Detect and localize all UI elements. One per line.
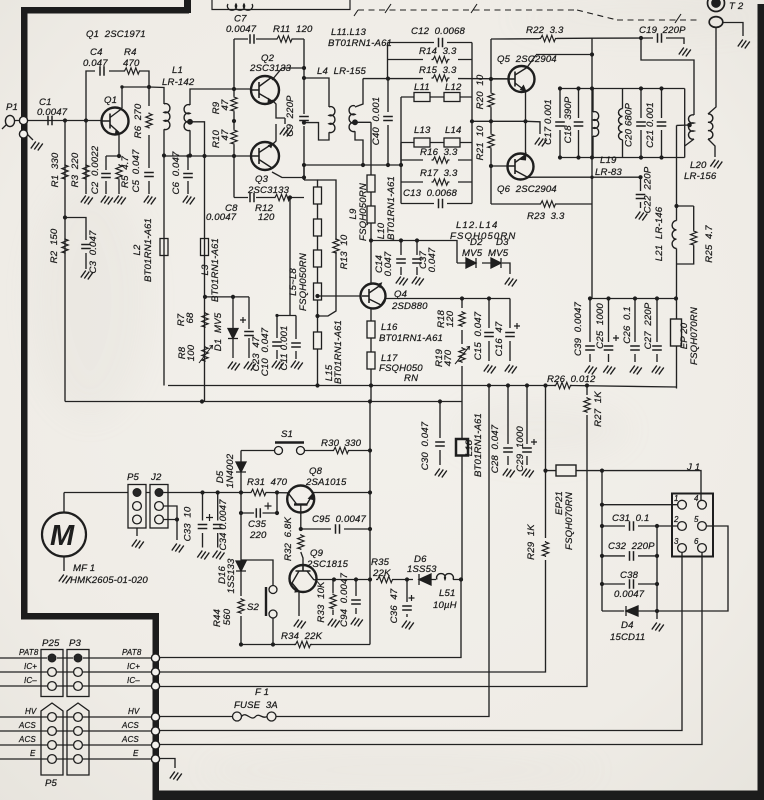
resistor R10 <box>231 129 237 145</box>
wire: C35 row <box>241 493 277 514</box>
svg-text:J 1: J 1 <box>686 462 700 473</box>
wire: C21 leg <box>661 89 663 158</box>
svg-text:BT01RN1-A61: BT01RN1-A61 <box>143 218 154 282</box>
svg-text:120: 120 <box>258 212 275 223</box>
ground E row <box>170 772 182 781</box>
capacitor C14 <box>396 259 406 263</box>
wire: C14/C37 row to D2 leg <box>371 241 457 264</box>
wire: bus165 mid supply row <box>304 164 402 166</box>
svg-text:ACS: ACS <box>18 721 36 730</box>
svg-text:L12.L14: L12.L14 <box>456 220 498 231</box>
connector J2 <box>150 485 168 529</box>
svg-text:C15 0.047: C15 0.047 <box>473 311 484 360</box>
svg-text:C20 680P: C20 680P <box>624 103 635 147</box>
ground C26 <box>630 366 642 375</box>
thick border: lower-left step <box>21 613 159 620</box>
svg-text:L16: L16 <box>381 322 398 333</box>
svg-text:IC+: IC+ <box>127 662 140 671</box>
capacitor C17 <box>555 122 565 126</box>
wire: C20 leg <box>640 89 642 158</box>
ferrite bead L11 <box>414 93 430 102</box>
svg-text:C29 1000: C29 1000 <box>515 426 526 472</box>
resistor R30 <box>332 447 350 453</box>
wire: L1 secondary mid tap to R9/R10 node <box>190 122 205 156</box>
inductor L19 secondary <box>619 109 623 140</box>
wire: T2 lead down <box>708 28 716 115</box>
wire: R30 rail x370 <box>370 386 371 645</box>
svg-text:1SS133: 1SS133 <box>226 558 237 594</box>
resistor R35 <box>376 576 394 582</box>
ground C15 <box>484 365 496 374</box>
svg-text:C36 47: C36 47 <box>389 588 400 623</box>
svg-text:T 2: T 2 <box>729 1 744 12</box>
svg-text:R17 3.3: R17 3.3 <box>420 168 458 179</box>
wire: C30 branch <box>439 402 441 466</box>
wire: C13 row <box>401 203 472 205</box>
capacitor C36 electrolytic <box>402 595 414 610</box>
capacitor C25 electrolytic <box>604 335 619 350</box>
diode D2 <box>466 258 476 268</box>
wire: Q8 emitter row <box>314 492 371 494</box>
svg-text:P5: P5 <box>45 778 58 789</box>
node L4 tap <box>353 120 358 125</box>
wire: C18 leg <box>578 89 580 158</box>
resistor R12 <box>274 194 292 200</box>
node L1 tap <box>188 120 193 125</box>
resistor R21 <box>488 133 494 149</box>
inductor L19 primary <box>593 112 599 137</box>
wire: L1 secondary bottom to Q3 base row <box>164 130 251 156</box>
wire: C22 branch <box>640 177 642 208</box>
svg-text:BT01RN1-A61: BT01RN1-A61 <box>333 320 344 384</box>
svg-text:E: E <box>133 749 139 758</box>
wire: L1 primary bottom to L2 to bus1 <box>163 129 165 385</box>
wire: T2 ground stub <box>723 23 743 37</box>
svg-text:3: 3 <box>674 537 679 546</box>
svg-text:E: E <box>30 749 36 758</box>
svg-text:5: 5 <box>694 515 699 524</box>
ground R33 <box>328 619 340 628</box>
svg-text:L51: L51 <box>439 588 455 599</box>
svg-text:L1: L1 <box>172 65 183 76</box>
svg-text:Q1 2SC1971: Q1 2SC1971 <box>86 29 146 40</box>
svg-text:Q9: Q9 <box>310 548 324 559</box>
wire: IC- left rows <box>0 685 152 687</box>
connector P5 top <box>128 485 146 529</box>
wire: R22 top row <box>491 37 592 40</box>
wire: Q6 base lead <box>491 165 508 167</box>
connector J1 <box>672 494 713 557</box>
svg-text:10µH: 10µH <box>433 600 457 611</box>
wire: C28 leg to bus1 <box>507 386 509 466</box>
wire: C7/R11 feedback row Q2 <box>234 38 304 40</box>
wire: C4/R4 feedback loop <box>86 71 149 121</box>
wire: Q8 collector to R32 <box>301 505 303 566</box>
switch S2 <box>266 586 277 619</box>
ground R5 <box>114 196 126 205</box>
svg-text:R13 10: R13 10 <box>339 234 350 269</box>
diode D6 <box>419 574 431 585</box>
svg-text:HMK2605-01-020: HMK2605-01-020 <box>70 575 148 586</box>
ground motor <box>59 575 71 584</box>
svg-text:2: 2 <box>673 515 679 524</box>
svg-text:LR-83: LR-83 <box>595 167 622 178</box>
resistor R29 <box>542 541 548 557</box>
wire: C14 branch <box>400 241 402 276</box>
svg-text:LR-156: LR-156 <box>684 171 717 182</box>
wire: tank top row y88.5 <box>560 88 685 90</box>
wire: L19 primary leads <box>592 89 594 158</box>
wire: S2 leads <box>241 560 273 645</box>
wire: L4 secondary tap lead <box>355 79 371 166</box>
wire: C8/R12 feedback row Q3 <box>234 156 304 198</box>
ferrite bead L15 <box>314 332 322 349</box>
svg-text:FUSE 3A: FUSE 3A <box>234 700 278 711</box>
svg-text:R6 270: R6 270 <box>133 103 144 138</box>
svg-text:C26 0.1: C26 0.1 <box>622 306 633 343</box>
svg-text:J2: J2 <box>150 472 162 483</box>
svg-text:D4: D4 <box>621 620 634 631</box>
svg-text:C34 0.0047: C34 0.0047 <box>218 499 229 551</box>
wire: bank right rail x472 <box>471 43 473 204</box>
wire: R34 row <box>241 644 370 646</box>
wire: C31 row to pin2 <box>602 525 678 527</box>
svg-text:BT01RN1-A61: BT01RN1-A61 <box>386 176 397 240</box>
ground L20 <box>710 160 722 169</box>
capacitor C4 <box>100 66 104 76</box>
svg-text:2SC3133: 2SC3133 <box>249 63 292 74</box>
wire: bank2 left rail <box>400 143 402 204</box>
wire: C17 leg <box>559 89 561 158</box>
wire: C33 branch <box>202 493 204 548</box>
wire: Q4 emitter row to C15/C16 <box>385 298 510 300</box>
ground C22 <box>635 212 647 221</box>
shield line hooks <box>354 4 681 23</box>
svg-text:ACS: ACS <box>121 721 139 730</box>
ground C6 <box>183 196 195 205</box>
wire: R33 branch <box>332 580 334 616</box>
capacitor C18 <box>574 122 584 126</box>
wire: C10 branch <box>276 316 278 360</box>
diode D16 <box>236 561 246 580</box>
wire: pin5 loop to D4 row <box>657 526 728 611</box>
capacitor C95 <box>336 524 340 534</box>
svg-text:L4 LR-155: L4 LR-155 <box>317 66 366 77</box>
svg-text:L21 LR-146: L21 LR-146 <box>654 206 665 261</box>
ferrite bead L8 <box>314 283 322 300</box>
diode D3 <box>491 258 501 268</box>
wire: top row to C19 and gnd <box>592 38 684 44</box>
wire: Q9 emitter ground <box>298 592 300 616</box>
svg-text:470: 470 <box>123 58 140 69</box>
wire: C6 branch from Q3 base row <box>187 156 189 194</box>
svg-text:0.0047: 0.0047 <box>614 589 645 600</box>
svg-text:L11: L11 <box>414 82 430 93</box>
connector P3 lower <box>67 703 89 775</box>
wire: R18/R19 leg x462 <box>461 299 463 582</box>
wire: L21/R25 branch <box>677 125 694 319</box>
svg-text:P1: P1 <box>6 102 18 113</box>
inductor L1 primary winding <box>164 104 170 130</box>
wire: Q6 collector diagonal <box>528 176 641 178</box>
svg-text:470: 470 <box>443 349 454 366</box>
capacitor C21 <box>657 122 667 126</box>
wire: R13 branch <box>318 180 337 316</box>
capacitor C26 <box>630 346 640 350</box>
svg-text:C13 0.0068: C13 0.0068 <box>403 188 457 199</box>
wire: motor bottom ground <box>63 557 65 571</box>
wire: filter bank1 left rail <box>387 43 389 79</box>
wire: R1/R2 column x65 down to bus2 <box>64 121 66 402</box>
ferrite bead L14 <box>444 138 460 147</box>
wire: C39 leg <box>589 299 591 363</box>
ground D4 <box>652 623 664 632</box>
svg-text:C39 0.0047: C39 0.0047 <box>573 302 584 356</box>
svg-text:15CD11: 15CD11 <box>610 632 645 643</box>
wire: C15 branch <box>488 299 490 362</box>
ferrite bead L9 <box>367 175 375 192</box>
svg-text:FSQH050RN: FSQH050RN <box>298 253 309 311</box>
ferrite bead L16 <box>367 321 375 338</box>
svg-text:2SC3133: 2SC3133 <box>247 185 290 196</box>
svg-text:L13: L13 <box>414 125 431 136</box>
ground C34 <box>213 551 225 560</box>
resistor R18 <box>459 311 465 327</box>
resistor R15 <box>432 75 450 81</box>
svg-text:R21 10: R21 10 <box>475 125 486 160</box>
svg-text:IC–: IC– <box>24 676 37 685</box>
svg-text:BT01RN1-A61: BT01RN1-A61 <box>328 38 392 49</box>
ferrite bead L10 <box>367 206 375 223</box>
wire: E row ground stub <box>160 759 175 769</box>
resistor R19 variable <box>455 347 470 365</box>
wire: pin1 row <box>602 504 678 506</box>
ground C27 <box>652 366 664 375</box>
svg-text:L11.L13: L11.L13 <box>331 27 367 38</box>
svg-text:IC–: IC– <box>127 676 140 685</box>
wire: C19 branch to L20 primary <box>641 38 694 115</box>
inductor L51 <box>437 574 454 580</box>
capacitor C12 <box>439 38 443 48</box>
inductor L20 secondary <box>708 114 713 139</box>
ground J2 <box>172 544 184 553</box>
wire: C32 row <box>602 555 657 557</box>
resistor R16 <box>432 157 450 163</box>
svg-text:R30 330: R30 330 <box>321 438 362 449</box>
pads on frame lower <box>151 654 159 662</box>
wire D1/C23 row <box>205 296 249 298</box>
inductor L4 secondary winding <box>349 106 355 132</box>
resistor R1 <box>62 164 68 180</box>
ground C23 <box>244 362 256 371</box>
ground C11 <box>291 361 303 370</box>
svg-text:C32 220P: C32 220P <box>608 541 655 552</box>
wire: Q4 base <box>318 295 362 297</box>
wire: Q2 collector row <box>272 68 304 80</box>
svg-text:LR-142: LR-142 <box>162 77 195 88</box>
wire: R29/IC+ leg x545.5 <box>160 387 546 672</box>
svg-text:L14: L14 <box>445 125 461 136</box>
wire: bus1 main supply rail <box>168 386 676 388</box>
wire: Q1 emitter to junction <box>106 133 119 156</box>
resistor R14 <box>432 56 450 62</box>
ground R3 <box>81 196 93 205</box>
wire: Q5 emitter diagonal <box>525 92 527 122</box>
ground D1 <box>228 362 240 371</box>
resistor R9 <box>231 96 237 112</box>
svg-text:C9 220P: C9 220P <box>285 95 296 137</box>
wire: C2 branch <box>105 156 107 194</box>
ground C28 <box>503 469 515 478</box>
svg-text:C3 0.047: C3 0.047 <box>88 230 99 273</box>
fuse-resistor EP21 <box>556 465 576 476</box>
svg-text:C7: C7 <box>234 14 247 25</box>
ground C94 <box>351 618 363 627</box>
wire: R6 column <box>148 87 150 194</box>
wire: PAT8 left rows <box>0 657 152 659</box>
svg-text:R22 3.3: R22 3.3 <box>526 25 564 36</box>
wire: L13/L14 row <box>401 142 472 144</box>
thick border: bottom bar <box>153 791 764 800</box>
svg-text:R32 6.8K: R32 6.8K <box>283 517 294 561</box>
svg-text:C95 0.0047: C95 0.0047 <box>312 514 366 525</box>
wire: D2/D3 varactor row <box>457 263 510 274</box>
svg-text:M: M <box>50 520 75 552</box>
svg-text:C17 0.001: C17 0.001 <box>543 99 554 145</box>
wire: P5 ground stub <box>136 528 138 536</box>
shield dashed line top <box>358 10 700 20</box>
wire: L20 secondary bottom ground <box>685 139 715 157</box>
thick border: right bar <box>758 4 764 800</box>
svg-text:120: 120 <box>445 310 456 327</box>
resistor R32 <box>298 534 304 550</box>
wire: C31/C32/C38 right rail x657 <box>656 526 658 611</box>
svg-text:L12: L12 <box>445 82 462 93</box>
ground C36 <box>402 621 414 630</box>
ferrite bead L13 <box>414 138 430 147</box>
svg-text:C30 0.047: C30 0.047 <box>420 421 431 470</box>
transistor Q5 <box>509 66 535 92</box>
ground C33 <box>197 551 209 560</box>
capacitor C94 <box>351 600 361 604</box>
capacitor C5 <box>144 173 154 177</box>
capacitor C11 <box>291 343 301 347</box>
wire: C25 leg <box>608 299 610 363</box>
transistor Q8 <box>287 486 314 513</box>
svg-text:R25 4.7: R25 4.7 <box>704 225 715 263</box>
svg-text:RN: RN <box>404 373 418 384</box>
shield box top-left with coil <box>212 0 350 10</box>
svg-text:22K: 22K <box>372 568 391 579</box>
resistor R44 <box>238 598 244 614</box>
wire: L19 secondary leads <box>622 89 624 158</box>
motor MF1 <box>42 513 86 557</box>
svg-text:C22 220P: C22 220P <box>643 166 654 213</box>
svg-text:C31 0.1: C31 0.1 <box>612 513 649 524</box>
ground C19 <box>679 48 691 57</box>
svg-text:C12 0.0068: C12 0.0068 <box>411 26 465 37</box>
svg-text:C28 0.047: C28 0.047 <box>490 424 501 473</box>
capacitor C30 <box>435 442 445 446</box>
capacitor C8 <box>250 193 254 203</box>
resistor R31 <box>250 489 268 495</box>
svg-text:C2 0.0022: C2 0.0022 <box>90 145 101 194</box>
wire: L4 primary bottom hook <box>304 123 329 140</box>
diode D4 <box>626 606 638 616</box>
capacitor C31 <box>630 521 634 531</box>
svg-text:BT01RN1-A61: BT01RN1-A61 <box>210 238 221 302</box>
ground C25 <box>603 366 615 375</box>
wire: C94 branch <box>355 580 357 615</box>
connector P25 lower <box>41 703 63 775</box>
wire: motor row to P5/J2 <box>64 492 241 494</box>
transistor Q9 <box>290 565 317 592</box>
svg-text:C25 1000: C25 1000 <box>595 303 606 349</box>
inductor L4 primary winding <box>329 107 335 133</box>
ground C29 <box>522 469 534 478</box>
capacitor C19 <box>658 33 662 43</box>
svg-text:FSQH070RN: FSQH070RN <box>689 307 700 365</box>
ground C10 <box>272 361 284 370</box>
connector P25 upper <box>41 650 63 697</box>
capacitor C2 <box>101 174 111 178</box>
ferrite bead L7 <box>314 250 322 267</box>
wire: node Q1col to L1 primary top <box>149 87 164 104</box>
wire: C34 branch <box>217 493 219 548</box>
ground C5 <box>144 196 156 205</box>
wire: P1 input row to Q1 base <box>14 120 102 122</box>
diode D1 <box>228 297 238 358</box>
svg-text:560: 560 <box>222 608 233 625</box>
wire: C37 branch <box>416 241 418 276</box>
capacitor C33 electrolytic <box>198 514 213 529</box>
svg-text:2SC1815: 2SC1815 <box>306 559 349 570</box>
svg-text:C35: C35 <box>248 519 267 530</box>
diode D5 <box>236 462 246 478</box>
ground T2 <box>738 40 750 49</box>
wire: R14 row <box>388 59 473 61</box>
resistor R20 <box>488 92 494 108</box>
capacitor C34 <box>213 525 223 529</box>
wire: C40 rail <box>387 79 389 165</box>
connector T2 <box>708 0 725 27</box>
wire: ACS2 left rows <box>0 744 152 746</box>
capacitor C40 <box>383 117 393 121</box>
inductor L1 secondary winding <box>184 105 190 131</box>
ground C39 <box>585 366 597 375</box>
svg-text:R3 220: R3 220 <box>70 152 81 187</box>
wire: pad to input ground stub <box>27 134 33 140</box>
svg-text:Q4: Q4 <box>394 289 407 300</box>
capacitor C22 <box>636 195 646 199</box>
svg-text:S2: S2 <box>247 602 260 613</box>
svg-text:0.047: 0.047 <box>383 251 394 276</box>
svg-text:D1 MV5: D1 MV5 <box>213 312 224 351</box>
wire: Q5 collector diagonal <box>527 55 592 68</box>
wire: L5-L8 column top bend <box>304 180 318 187</box>
svg-text:PAT8: PAT8 <box>19 648 39 657</box>
resistor R13 <box>333 238 339 254</box>
wire: tank bottom row y153.6 <box>560 157 685 159</box>
svg-text:220: 220 <box>249 530 267 541</box>
wire: R31/Q8 base row <box>241 492 288 494</box>
wire: Q2 emitter to mid node <box>272 100 285 118</box>
svg-text:0.0047: 0.0047 <box>226 24 257 35</box>
wire: L9/L10 column from L4 lead <box>370 122 372 240</box>
resistor R6 <box>146 113 152 129</box>
ground C30 <box>435 469 447 478</box>
capacitor C13 <box>439 199 443 209</box>
